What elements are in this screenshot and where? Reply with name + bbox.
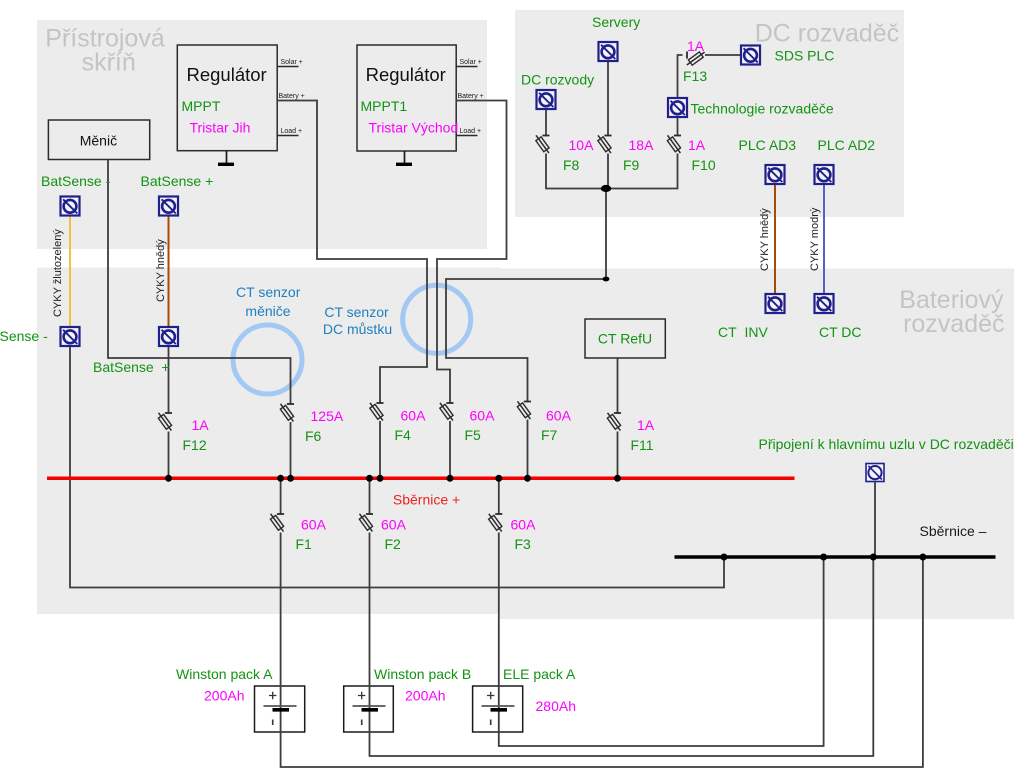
svg-text:Tristar Jih: Tristar Jih bbox=[190, 120, 251, 136]
box Měnič bbox=[48, 120, 149, 160]
svg-text:rozvaděč: rozvaděč bbox=[903, 310, 1004, 338]
ground (R2) bbox=[404, 151, 406, 163]
wire F11 to red bus bbox=[617, 432, 619, 479]
svg-text:Servery: Servery bbox=[592, 14, 640, 30]
battery A plates bbox=[264, 692, 297, 725]
svg-text:MPPT: MPPT bbox=[182, 98, 221, 114]
battery Winston pack B (box) bbox=[344, 686, 394, 732]
wire F4 to red bus bbox=[379, 421, 381, 478]
svg-text:F4: F4 bbox=[395, 427, 412, 443]
wire F2 through Winston pack B to Sběrnice- bbox=[370, 533, 874, 757]
wire Sense- to Sběrnice- bus bbox=[70, 346, 724, 588]
connector BatSense+ upper bbox=[159, 197, 178, 216]
connector Servery bbox=[599, 42, 618, 61]
svg-text:DC rozvody: DC rozvody bbox=[521, 72, 594, 88]
wire BatSense+ lower connector to F12 bbox=[168, 346, 170, 413]
junction node DC rozvaděč bbox=[601, 185, 611, 192]
svg-text:200Ah: 200Ah bbox=[405, 688, 445, 704]
junction F11/red bus bbox=[614, 475, 621, 482]
svg-text:60A: 60A bbox=[401, 408, 427, 424]
svg-text:BatSense +: BatSense + bbox=[93, 359, 170, 375]
svg-text:Winston pack A: Winston pack A bbox=[176, 666, 273, 682]
panel DC rozvaděč bbox=[515, 10, 904, 217]
connector PLC AD2 bbox=[815, 165, 834, 184]
svg-text:CT RefU: CT RefU bbox=[598, 331, 652, 347]
svg-text:10A: 10A bbox=[569, 137, 595, 153]
wire Regulátor1 Batery+ to F4 bbox=[277, 101, 427, 404]
svg-text:BatSense -: BatSense - bbox=[0, 328, 48, 344]
wire F1 through Winston pack A to Sběrnice- bbox=[281, 533, 923, 768]
connector Technologie rozvaděče bbox=[668, 98, 687, 117]
wire BatSense+ brown CYKY hnědý bbox=[168, 216, 170, 327]
connector CT DC bbox=[815, 294, 834, 313]
wire red bus to F2 bbox=[369, 478, 371, 514]
wire F3 through ELE pack A to Sběrnice- bbox=[499, 533, 824, 747]
wire F13 to SDS PLC connector bbox=[705, 54, 741, 56]
fuse F10 bbox=[667, 135, 681, 153]
wire Měnič to F6 bbox=[108, 160, 291, 404]
svg-text:Solar +: Solar + bbox=[281, 59, 303, 66]
connector BatSense- lower bbox=[61, 327, 80, 346]
wire Regulátor2 Batery+ to F5 bbox=[437, 101, 507, 404]
fuse F13 bbox=[687, 52, 705, 66]
svg-text:F12: F12 bbox=[183, 437, 207, 453]
svg-text:F10: F10 bbox=[692, 157, 716, 173]
box CT RefU bbox=[585, 319, 665, 358]
svg-text:F7: F7 bbox=[541, 427, 558, 443]
svg-text:BatSense +: BatSense + bbox=[141, 173, 214, 189]
ground (R1) bbox=[226, 151, 228, 164]
svg-text:CYKY hnědý: CYKY hnědý bbox=[759, 208, 771, 271]
svg-text:18A: 18A bbox=[629, 137, 655, 153]
svg-text:Sběrnice +: Sběrnice + bbox=[393, 491, 460, 507]
svg-text:CT INV: CT INV bbox=[718, 324, 768, 340]
svg-text:CT senzor: CT senzor bbox=[236, 284, 301, 300]
svg-text:MPPT1: MPPT1 bbox=[361, 98, 408, 114]
fuse F5 bbox=[440, 403, 454, 421]
junction F5/red bus bbox=[447, 475, 454, 482]
connector PLC AD3 bbox=[766, 165, 785, 184]
svg-text:60A: 60A bbox=[511, 517, 537, 533]
svg-text:BatSense -: BatSense - bbox=[41, 173, 111, 189]
svg-text:Batery +: Batery + bbox=[458, 93, 484, 100]
svg-text:SDS PLC: SDS PLC bbox=[775, 48, 835, 64]
svg-text:CYKY modrý: CYKY modrý bbox=[809, 207, 821, 271]
svg-text:60A: 60A bbox=[301, 517, 327, 533]
wire F13 to Technologie connector bbox=[678, 55, 683, 98]
svg-text:PLC AD3: PLC AD3 bbox=[739, 137, 797, 153]
panel Bateriový rozvaděč (right part) bbox=[500, 269, 1014, 620]
junction battery C/black bus bbox=[820, 554, 827, 561]
svg-text:F5: F5 bbox=[465, 427, 482, 443]
svg-text:DC můstku: DC můstku bbox=[323, 321, 392, 337]
wire DC node to F7 bbox=[446, 279, 606, 402]
fuse F7 bbox=[517, 401, 531, 419]
box Regulátor 1 (MPPT Tristar Jih) bbox=[177, 45, 277, 151]
panel Bateriový rozvaděč (left part) bbox=[37, 268, 500, 615]
fuse F4 bbox=[370, 403, 384, 421]
svg-text:1A: 1A bbox=[687, 38, 705, 54]
wire DC rozvody connector to F8 bbox=[545, 109, 547, 136]
svg-text:F8: F8 bbox=[563, 157, 580, 173]
svg-text:Load +: Load + bbox=[281, 128, 303, 135]
svg-text:Regulátor: Regulátor bbox=[366, 64, 446, 85]
wire PLC AD3 to CT INV (CYKY hnědý) bbox=[774, 184, 776, 294]
junction F4/red bus bbox=[377, 475, 384, 482]
svg-text:60A: 60A bbox=[470, 408, 496, 424]
fuse F12 bbox=[158, 413, 172, 431]
bus Sběrnice + (red) bbox=[47, 477, 795, 481]
wire F7 to red bus bbox=[527, 420, 529, 479]
svg-text:F1: F1 bbox=[296, 536, 313, 552]
junction F7/red bus bbox=[524, 475, 531, 482]
wire F8 to node bbox=[546, 154, 606, 189]
junction F1/red bus bbox=[277, 475, 284, 482]
battery C plates bbox=[482, 692, 515, 725]
svg-text:200Ah: 200Ah bbox=[204, 688, 244, 704]
svg-text:ELE pack A: ELE pack A bbox=[503, 666, 576, 682]
svg-text:Měnič: Měnič bbox=[80, 132, 117, 148]
fuse F6 bbox=[280, 404, 294, 422]
fuse F1 bbox=[270, 514, 284, 532]
wire Technologie connector to F10 bbox=[677, 117, 679, 136]
svg-text:PLC AD2: PLC AD2 bbox=[818, 137, 876, 153]
battery B plates bbox=[353, 692, 386, 725]
junction F6/red bus bbox=[287, 475, 294, 482]
wire BatSense- yellow CYKY žlutozelený bbox=[69, 216, 71, 327]
wire F10 to node bbox=[606, 154, 678, 189]
junction Sense-/black bus bbox=[721, 554, 728, 561]
svg-text:1A: 1A bbox=[688, 137, 706, 153]
svg-text:Solar +: Solar + bbox=[460, 59, 482, 66]
wire F9 / DC node down bbox=[606, 154, 608, 280]
box Regulátor 2 (MPPT1 Tristar Východ) bbox=[357, 45, 456, 151]
svg-text:60A: 60A bbox=[546, 408, 572, 424]
svg-text:1A: 1A bbox=[192, 417, 210, 433]
fuse F2 bbox=[359, 514, 373, 532]
junction F2/red bus bbox=[366, 475, 373, 482]
connector CT INV bbox=[766, 294, 785, 313]
wire F6 to red bus bbox=[290, 422, 292, 478]
svg-text:CYKY žlutozelený: CYKY žlutozelený bbox=[52, 229, 64, 317]
svg-text:Regulátor: Regulátor bbox=[186, 64, 266, 85]
wire Připojení connector to Sběrnice- bbox=[874, 482, 876, 557]
junction node at Bateriový entry bbox=[603, 277, 610, 282]
svg-text:Sběrnice –: Sběrnice – bbox=[920, 523, 987, 539]
svg-text:Připojení k hlavnímu uzlu v DC: Připojení k hlavnímu uzlu v DC rozvaděči bbox=[759, 436, 1014, 452]
bus Sběrnice - (black) bbox=[675, 555, 996, 559]
svg-text:F13: F13 bbox=[683, 68, 707, 84]
svg-text:F2: F2 bbox=[385, 536, 402, 552]
junction battery A/black bus bbox=[919, 554, 926, 561]
battery Winston pack A (box) bbox=[255, 686, 305, 732]
connector DC rozvody bbox=[537, 90, 556, 109]
connector BatSense- upper bbox=[61, 197, 80, 216]
connector SDS PLC bbox=[741, 46, 760, 65]
CT sensor circle (měnič) bbox=[233, 325, 302, 394]
fuse F8 bbox=[536, 135, 550, 153]
wire red bus to F3 bbox=[498, 478, 500, 514]
svg-text:Load +: Load + bbox=[460, 128, 482, 135]
svg-text:skříň: skříň bbox=[82, 49, 136, 77]
fuse F11 bbox=[607, 413, 621, 431]
junction F3/red bus bbox=[495, 475, 502, 482]
svg-text:Tristar Východ: Tristar Východ bbox=[369, 120, 459, 136]
svg-text:měniče: měniče bbox=[245, 303, 290, 319]
svg-text:Technologie rozvaděče: Technologie rozvaděče bbox=[691, 101, 834, 117]
svg-text:280Ah: 280Ah bbox=[536, 698, 576, 714]
wire PLC AD2 to CT DC (CYKY modrý) bbox=[823, 184, 825, 294]
wire red bus to F1 bbox=[280, 478, 282, 514]
fuse F3 bbox=[489, 514, 503, 532]
battery ELE pack A (box) bbox=[473, 686, 523, 732]
svg-text:CT senzor: CT senzor bbox=[324, 304, 389, 320]
junction F12/red bus bbox=[165, 475, 172, 482]
wire CT RefU to F11 bbox=[617, 358, 619, 413]
svg-text:F11: F11 bbox=[631, 437, 654, 453]
panel Přístrojová skříň bbox=[37, 20, 487, 249]
connector Připojení bbox=[866, 464, 884, 482]
CT sensor circle (DC můstek) bbox=[403, 285, 471, 353]
svg-text:CT DC: CT DC bbox=[819, 324, 862, 340]
svg-text:60A: 60A bbox=[381, 517, 407, 533]
wire F5 to red bus bbox=[449, 421, 451, 478]
fuse F9 bbox=[598, 135, 612, 153]
svg-text:F9: F9 bbox=[623, 157, 640, 173]
svg-text:125A: 125A bbox=[311, 408, 344, 424]
svg-text:F6: F6 bbox=[305, 428, 322, 444]
connector BatSense+ lower bbox=[159, 327, 178, 346]
svg-text:F3: F3 bbox=[515, 536, 532, 552]
svg-text:Batery +: Batery + bbox=[279, 93, 305, 100]
wire Servery connector to F9 bbox=[607, 61, 609, 136]
junction battery B/black bus bbox=[870, 554, 877, 561]
svg-text:CYKY hnědý: CYKY hnědý bbox=[155, 239, 167, 302]
svg-text:Winston pack B: Winston pack B bbox=[374, 666, 471, 682]
svg-text:1A: 1A bbox=[637, 417, 655, 433]
svg-text:DC rozvaděč: DC rozvaděč bbox=[755, 19, 900, 47]
wire F12 to red bus bbox=[168, 432, 170, 479]
